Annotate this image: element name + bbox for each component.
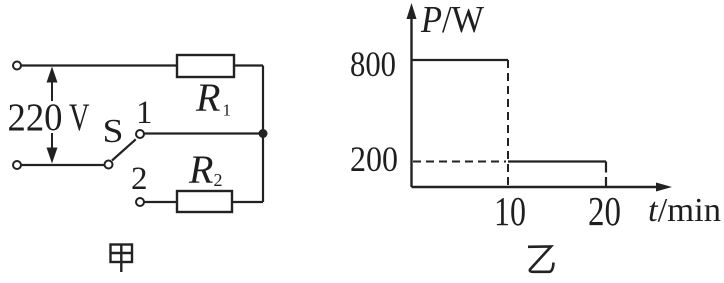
svg-text:S: S (103, 113, 124, 150)
drop at t=20 (605, 162, 607, 173)
voltage arrow up (51, 80, 53, 101)
svg-text:V: V (69, 96, 90, 139)
switch pivot (105, 161, 113, 169)
contact 2 (136, 198, 144, 206)
wire contact1 to junction (144, 132, 263, 134)
svg-text:10: 10 (494, 188, 526, 234)
switch blade (112, 139, 136, 160)
svg-text:1: 1 (223, 101, 232, 120)
wire R2 right (232, 201, 263, 203)
svg-text:R: R (188, 147, 213, 192)
200 power segment (508, 160, 606, 162)
svg-text:P/W: P/W (420, 0, 484, 41)
wire contact2 to R2 (144, 201, 177, 203)
terminal bottom-left (13, 161, 21, 169)
wire top (21, 64, 177, 66)
svg-text:800: 800 (350, 44, 396, 84)
contact 1 (136, 130, 144, 138)
voltage arrow down (51, 133, 53, 150)
svg-text:2: 2 (131, 161, 148, 197)
dashed drop at t=10 (507, 60, 509, 186)
svg-text:20: 20 (588, 188, 621, 234)
resistor R1 box (177, 55, 234, 77)
svg-text:1: 1 (136, 95, 153, 131)
svg-text:t/min: t/min (648, 192, 721, 229)
svg-text:200: 200 (350, 139, 398, 179)
terminal top-left (13, 62, 21, 70)
caption yi (528, 247, 554, 272)
wire R1 right (234, 64, 263, 66)
dashed 200 level left (413, 161, 506, 163)
caption jia (111, 245, 133, 273)
graph x-axis (412, 186, 660, 188)
resistor R2 box (177, 191, 232, 212)
graph y-axis (410, 16, 412, 187)
junction node (259, 129, 268, 138)
svg-text:220: 220 (8, 96, 63, 139)
wire bottom (21, 164, 105, 166)
svg-text:2: 2 (214, 170, 223, 190)
wire right vertical (262, 66, 264, 203)
svg-text:R: R (195, 75, 220, 120)
800 power segment (413, 59, 509, 61)
